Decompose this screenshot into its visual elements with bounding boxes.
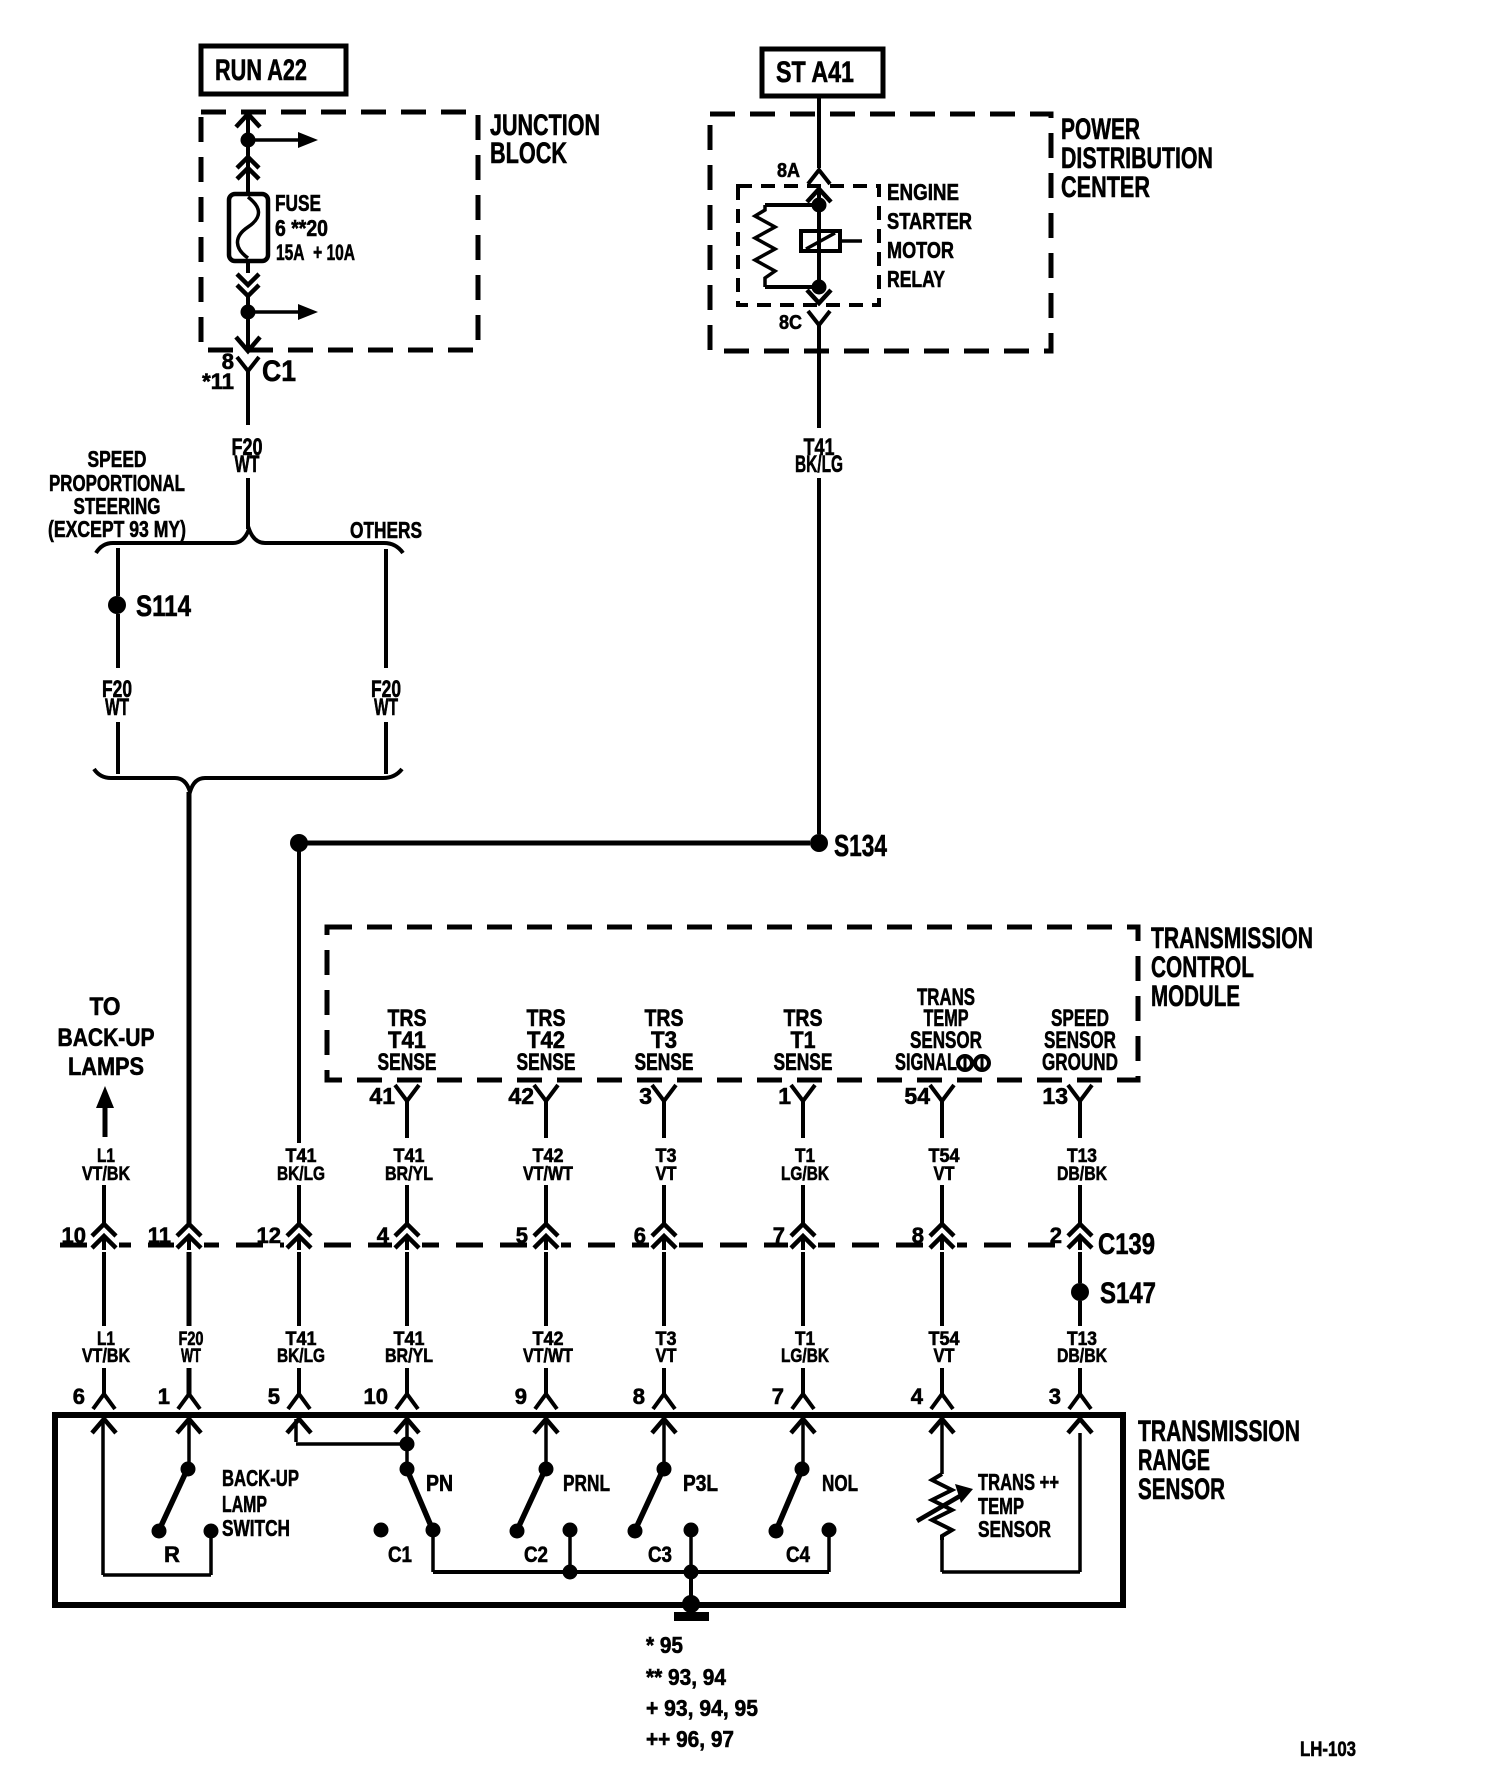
svg-text:1: 1 — [778, 1083, 791, 1109]
svg-text:RUN A22: RUN A22 — [215, 54, 307, 87]
svg-text:WT: WT — [235, 451, 260, 478]
svg-text:11: 11 — [148, 1223, 171, 1248]
svg-text:SWITCH: SWITCH — [222, 1515, 290, 1541]
svg-text:BACK-UP: BACK-UP — [222, 1465, 299, 1491]
svg-text:DB/BK: DB/BK — [1057, 1346, 1107, 1367]
svg-text:10: 10 — [364, 1384, 388, 1409]
svg-text:2: 2 — [1050, 1223, 1062, 1248]
svg-text:C139: C139 — [1098, 1228, 1155, 1261]
svg-text:S114: S114 — [136, 590, 191, 623]
svg-text:7: 7 — [773, 1223, 785, 1248]
svg-text:VT: VT — [934, 1346, 955, 1367]
svg-text:VT/BK: VT/BK — [82, 1164, 130, 1185]
svg-text:ENGINE: ENGINE — [887, 179, 959, 205]
svg-text:VT/WT: VT/WT — [523, 1164, 573, 1185]
svg-text:C1: C1 — [262, 355, 296, 388]
svg-text:BR/YL: BR/YL — [385, 1346, 433, 1367]
svg-text:6: 6 — [73, 1384, 85, 1409]
svg-text:BACK-UP: BACK-UP — [58, 1024, 155, 1052]
svg-text:LG/BK: LG/BK — [781, 1164, 829, 1185]
svg-text:3: 3 — [639, 1083, 652, 1109]
svg-text:MODULE: MODULE — [1151, 980, 1240, 1013]
svg-text:6: 6 — [634, 1223, 646, 1248]
svg-text:41: 41 — [369, 1083, 395, 1109]
svg-text:8C: 8C — [779, 312, 802, 334]
svg-text:6 **20: 6 **20 — [275, 215, 328, 241]
svg-text:C2: C2 — [524, 1542, 548, 1567]
svg-text:ST A41: ST A41 — [776, 56, 854, 89]
svg-text:SENSE: SENSE — [635, 1049, 694, 1076]
svg-text:5: 5 — [516, 1223, 528, 1248]
svg-text:9: 9 — [515, 1384, 527, 1409]
svg-text:5: 5 — [268, 1384, 280, 1409]
svg-text:(EXCEPT 93 MY): (EXCEPT 93 MY) — [48, 516, 186, 542]
svg-text:VT/WT: VT/WT — [523, 1346, 573, 1367]
svg-text:1: 1 — [158, 1384, 170, 1409]
svg-text:7: 7 — [772, 1384, 784, 1409]
svg-text:LG/BK: LG/BK — [781, 1346, 829, 1367]
svg-text:4: 4 — [911, 1384, 924, 1409]
svg-text:C3: C3 — [648, 1542, 672, 1567]
svg-text:FUSE: FUSE — [275, 190, 321, 216]
svg-text:SENSE: SENSE — [378, 1049, 437, 1076]
svg-text:P3L: P3L — [683, 1470, 718, 1496]
svg-text:NOL: NOL — [822, 1470, 858, 1496]
svg-text:S147: S147 — [1100, 1277, 1156, 1310]
svg-text:BK/LG: BK/LG — [795, 451, 843, 478]
svg-text:MOTOR: MOTOR — [887, 237, 954, 263]
svg-text:* 95: * 95 — [646, 1632, 683, 1658]
svg-text:8: 8 — [912, 1223, 924, 1248]
svg-text:R: R — [164, 1542, 180, 1567]
svg-text:8: 8 — [633, 1384, 645, 1409]
svg-text:3: 3 — [1049, 1384, 1061, 1409]
svg-text:8A: 8A — [777, 160, 800, 182]
svg-text:LAMP: LAMP — [222, 1491, 267, 1517]
svg-text:12: 12 — [257, 1223, 281, 1248]
svg-text:42: 42 — [508, 1083, 534, 1109]
svg-text:DB/BK: DB/BK — [1057, 1164, 1107, 1185]
svg-text:STARTER: STARTER — [887, 208, 972, 234]
svg-text:VT: VT — [656, 1164, 677, 1185]
svg-text:++ 96, 97: ++ 96, 97 — [646, 1726, 734, 1752]
svg-text:15A + 10A: 15A + 10A — [276, 240, 355, 265]
svg-text:LH-103: LH-103 — [1300, 1738, 1356, 1761]
svg-text:SENSE: SENSE — [517, 1049, 576, 1076]
svg-text:RELAY: RELAY — [887, 266, 945, 292]
svg-text:OTHERS: OTHERS — [350, 517, 422, 543]
svg-text:VT: VT — [934, 1164, 955, 1185]
svg-text:*11: *11 — [202, 369, 234, 394]
svg-text:VT/BK: VT/BK — [82, 1346, 130, 1367]
svg-text:TRANS ++: TRANS ++ — [978, 1469, 1059, 1495]
svg-text:GROUND: GROUND — [1042, 1049, 1118, 1076]
svg-text:SENSOR: SENSOR — [1138, 1473, 1225, 1506]
svg-text:+ 93, 94, 95: + 93, 94, 95 — [646, 1695, 758, 1721]
svg-text:WT: WT — [181, 1346, 201, 1367]
svg-text:SENSOR: SENSOR — [978, 1516, 1051, 1542]
svg-text:WT: WT — [105, 694, 129, 721]
svg-text:TO: TO — [90, 993, 121, 1021]
svg-text:BK/LG: BK/LG — [277, 1346, 325, 1367]
svg-text:4: 4 — [377, 1223, 390, 1248]
svg-text:S134: S134 — [834, 828, 888, 863]
svg-text:WT: WT — [374, 694, 398, 721]
svg-text:BR/YL: BR/YL — [385, 1164, 433, 1185]
svg-text:SPEED: SPEED — [88, 446, 147, 472]
svg-text:CENTER: CENTER — [1061, 171, 1150, 204]
svg-text:PRNL: PRNL — [563, 1470, 610, 1496]
svg-text:PN: PN — [426, 1470, 453, 1496]
svg-text:C4: C4 — [786, 1542, 811, 1567]
svg-text:** 93, 94: ** 93, 94 — [646, 1664, 726, 1690]
svg-text:C1: C1 — [388, 1542, 412, 1567]
svg-text:SENSE: SENSE — [774, 1049, 833, 1076]
svg-text:LAMPS: LAMPS — [68, 1053, 144, 1081]
svg-text:13: 13 — [1042, 1083, 1068, 1109]
svg-text:SIGNAL: SIGNAL — [895, 1049, 957, 1076]
svg-text:54: 54 — [904, 1083, 930, 1109]
svg-text:BK/LG: BK/LG — [277, 1164, 325, 1185]
svg-text:10: 10 — [62, 1223, 86, 1248]
svg-text:BLOCK: BLOCK — [490, 137, 567, 170]
svg-text:VT: VT — [656, 1346, 677, 1367]
